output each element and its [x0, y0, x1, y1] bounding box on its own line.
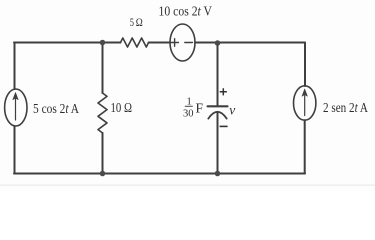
wire middle branch upper: [102, 43, 104, 94]
node dot top middle: [100, 40, 106, 46]
wire right vertical upper: [304, 43, 306, 87]
wire resistor to source: [149, 42, 170, 44]
wire middle branch lower: [102, 133, 104, 174]
plus sign inside source: [171, 39, 179, 47]
wire capacitor branch lower: [217, 113, 219, 174]
svg-text:2 sen 2t A: 2 sen 2t A: [323, 101, 369, 116]
svg-text:10 Ω: 10 Ω: [111, 101, 133, 116]
wire left vertical upper: [14, 43, 16, 90]
arrow of I1: [15, 99, 17, 121]
wire bottom: [14, 173, 305, 175]
node dot bottom capacitor: [215, 171, 221, 177]
svg-text:5: 5: [130, 15, 134, 29]
arrow of I2: [304, 95, 306, 116]
current source I1 ellipse: [5, 89, 27, 126]
svg-text:Ω: Ω: [136, 15, 143, 29]
minus sign inside source: [185, 42, 193, 44]
resistor R2 10ohm zigzag: [98, 93, 107, 133]
svg-text:5 cos 2t A: 5 cos 2t A: [33, 102, 80, 117]
svg-text:10 cos 2t V: 10 cos 2t V: [159, 5, 213, 20]
wire left vertical lower: [14, 126, 16, 174]
svg-text:v: v: [229, 103, 235, 118]
resistor R1 5ohm zigzag: [121, 38, 149, 47]
capacitor C1 top plate: [208, 105, 228, 107]
capacitor C1 curved plate: [208, 112, 226, 119]
wire right vertical lower: [304, 120, 306, 173]
svg-text:F: F: [196, 101, 204, 116]
faint scan line bottom: [0, 185, 375, 186]
svg-text:30: 30: [183, 109, 194, 120]
node dot top capacitor: [215, 40, 221, 46]
wire capacitor branch upper: [217, 43, 219, 106]
wire top-left segment: [14, 42, 121, 44]
wire source to right corner: [195, 42, 305, 44]
voltage source U1 ellipse: [170, 24, 195, 61]
current source I2 ellipse: [294, 86, 316, 120]
label minus of v: [220, 125, 228, 127]
node dot bottom middle: [100, 171, 106, 177]
fraction bar: [185, 105, 193, 108]
label plus of v: [220, 88, 227, 95]
